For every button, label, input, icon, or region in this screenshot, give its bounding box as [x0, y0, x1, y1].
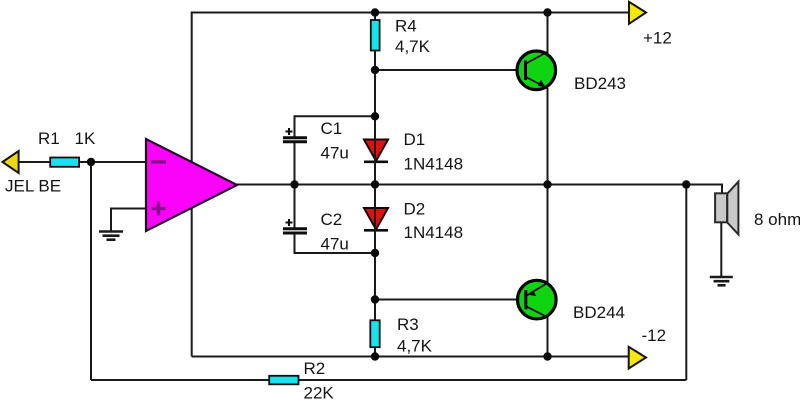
- svg-text:R4: R4: [395, 17, 417, 36]
- wire BD244 collector vertical down: [547, 317, 549, 357]
- svg-text:BD244: BD244: [573, 303, 625, 322]
- wire BD243 base: [375, 69, 526, 71]
- svg-text:R2: R2: [304, 359, 326, 378]
- +12 supply arrow: [629, 2, 646, 24]
- wire C1 top branch: [295, 116, 376, 137]
- ground (speaker): [710, 277, 733, 285]
- svg-text:1K: 1K: [75, 129, 96, 148]
- node junction after R1: [87, 158, 95, 166]
- wire bottom supply rail: [192, 356, 629, 358]
- resistor R2: [269, 376, 298, 385]
- wire feedback bottom left of R2: [91, 379, 270, 381]
- svg-text:8 ohm: 8 ohm: [754, 210, 800, 229]
- wire feedback bottom right of R2: [298, 379, 686, 381]
- resistor R1: [50, 158, 79, 167]
- node C1 top / D1 anode: [371, 112, 379, 120]
- op-amp U1: [146, 139, 237, 231]
- wire op-amp non-inverting input to ground: [111, 209, 147, 232]
- transistor Q1 BD243: [517, 51, 556, 90]
- svg-text:C2: C2: [321, 210, 343, 229]
- svg-text:R1: R1: [38, 129, 60, 148]
- node top rail / BD243 collector: [543, 8, 551, 16]
- capacitor C2: [283, 229, 307, 233]
- resistor R3: [370, 320, 379, 347]
- wire C2 top to output line: [294, 185, 296, 229]
- svg-text:JEL BE: JEL BE: [5, 177, 61, 196]
- svg-text:4,7K: 4,7K: [397, 337, 433, 356]
- capacitor C1: [283, 138, 307, 142]
- node top rail / R4: [371, 8, 379, 16]
- svg-text:D2: D2: [404, 200, 426, 219]
- node R4 bottom / BD243 base: [371, 66, 379, 74]
- node C1-C2 / output line: [290, 180, 298, 188]
- wire C2 bottom branch: [295, 233, 376, 253]
- resistor R4: [371, 20, 380, 51]
- C1 plus sign: [286, 128, 293, 135]
- wire BD244 base: [375, 299, 526, 301]
- svg-text:C1: C1: [321, 119, 343, 138]
- diode D1: [364, 140, 388, 162]
- wire feedback left vertical: [90, 162, 92, 380]
- svg-text:BD243: BD243: [574, 74, 626, 93]
- wire BD243 emitter vertical down to output: [547, 88, 549, 185]
- svg-text:47u: 47u: [321, 235, 349, 254]
- wire top supply rail: [192, 12, 629, 14]
- svg-text:D1: D1: [404, 130, 426, 149]
- speaker LS1: [715, 182, 738, 235]
- C2 plus sign: [286, 219, 293, 226]
- wire output line from op-amp to speaker: [236, 185, 722, 194]
- wire C1 bottom to output line: [294, 143, 296, 185]
- svg-text:1N4148: 1N4148: [404, 223, 464, 242]
- -12 supply arrow: [629, 347, 646, 369]
- node center column / output line: [371, 180, 379, 188]
- node emitters / output line: [543, 180, 551, 188]
- svg-text:+12: +12: [643, 29, 672, 48]
- input arrow: [3, 151, 19, 173]
- wire input segment: [17, 161, 51, 163]
- svg-text:22K: 22K: [304, 384, 335, 401]
- ground (op-amp non-inverting input): [99, 232, 123, 240]
- transistor Q2 BD244: [518, 280, 557, 319]
- wire center column vertical: [374, 13, 376, 357]
- svg-text:47u: 47u: [321, 144, 349, 163]
- wire speaker to ground: [720, 223, 722, 278]
- svg-text:1N4148: 1N4148: [404, 155, 464, 174]
- node C2 bottom / D2 cathode: [371, 249, 379, 257]
- wire BD244 emitter vertical from output: [547, 185, 549, 284]
- diode D2: [364, 208, 388, 230]
- node R3 top / BD244 base: [371, 295, 379, 303]
- wire R1 to op-amp inverting input: [78, 161, 147, 163]
- wire left vertical supply (behind op-amp): [191, 12, 193, 357]
- svg-text:-12: -12: [642, 326, 667, 345]
- wire BD243 collector vertical: [547, 13, 549, 54]
- svg-text:4,7K: 4,7K: [395, 37, 431, 56]
- svg-text:R3: R3: [397, 315, 419, 334]
- node output / feedback: [682, 180, 690, 188]
- wire feedback right vertical: [685, 185, 687, 381]
- node R3 bottom / bottom rail: [371, 352, 379, 360]
- node bottom rail / BD244 collector: [543, 352, 551, 360]
